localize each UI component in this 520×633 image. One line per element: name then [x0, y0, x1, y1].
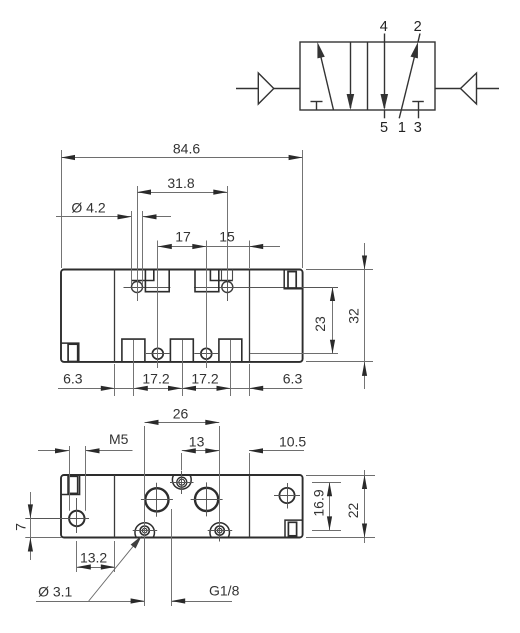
svg-text:M5: M5 — [109, 431, 129, 447]
svg-text:13.2: 13.2 — [80, 550, 107, 566]
svg-text:16.9: 16.9 — [311, 489, 327, 516]
svg-text:Ø 4.2: Ø 4.2 — [71, 200, 105, 216]
svg-text:Ø 3.1: Ø 3.1 — [38, 584, 72, 600]
svg-text:84.6: 84.6 — [173, 141, 200, 157]
svg-text:4: 4 — [380, 19, 388, 35]
svg-text:7: 7 — [13, 523, 29, 531]
svg-text:6.3: 6.3 — [283, 371, 303, 387]
svg-text:2: 2 — [414, 19, 422, 35]
svg-text:13: 13 — [189, 434, 205, 450]
svg-text:23: 23 — [312, 316, 328, 332]
svg-text:10.5: 10.5 — [279, 434, 306, 450]
svg-text:22: 22 — [345, 503, 361, 519]
svg-text:15: 15 — [219, 229, 235, 245]
svg-text:6.3: 6.3 — [63, 371, 83, 387]
svg-text:31.8: 31.8 — [167, 175, 194, 191]
svg-text:5: 5 — [380, 120, 388, 136]
svg-text:17.2: 17.2 — [191, 371, 218, 387]
svg-text:1: 1 — [398, 120, 406, 136]
svg-text:17: 17 — [175, 229, 191, 245]
svg-text:17.2: 17.2 — [142, 371, 169, 387]
svg-text:32: 32 — [346, 308, 362, 324]
svg-text:26: 26 — [173, 405, 189, 421]
svg-text:3: 3 — [414, 120, 422, 136]
svg-text:G1/8: G1/8 — [209, 583, 240, 599]
